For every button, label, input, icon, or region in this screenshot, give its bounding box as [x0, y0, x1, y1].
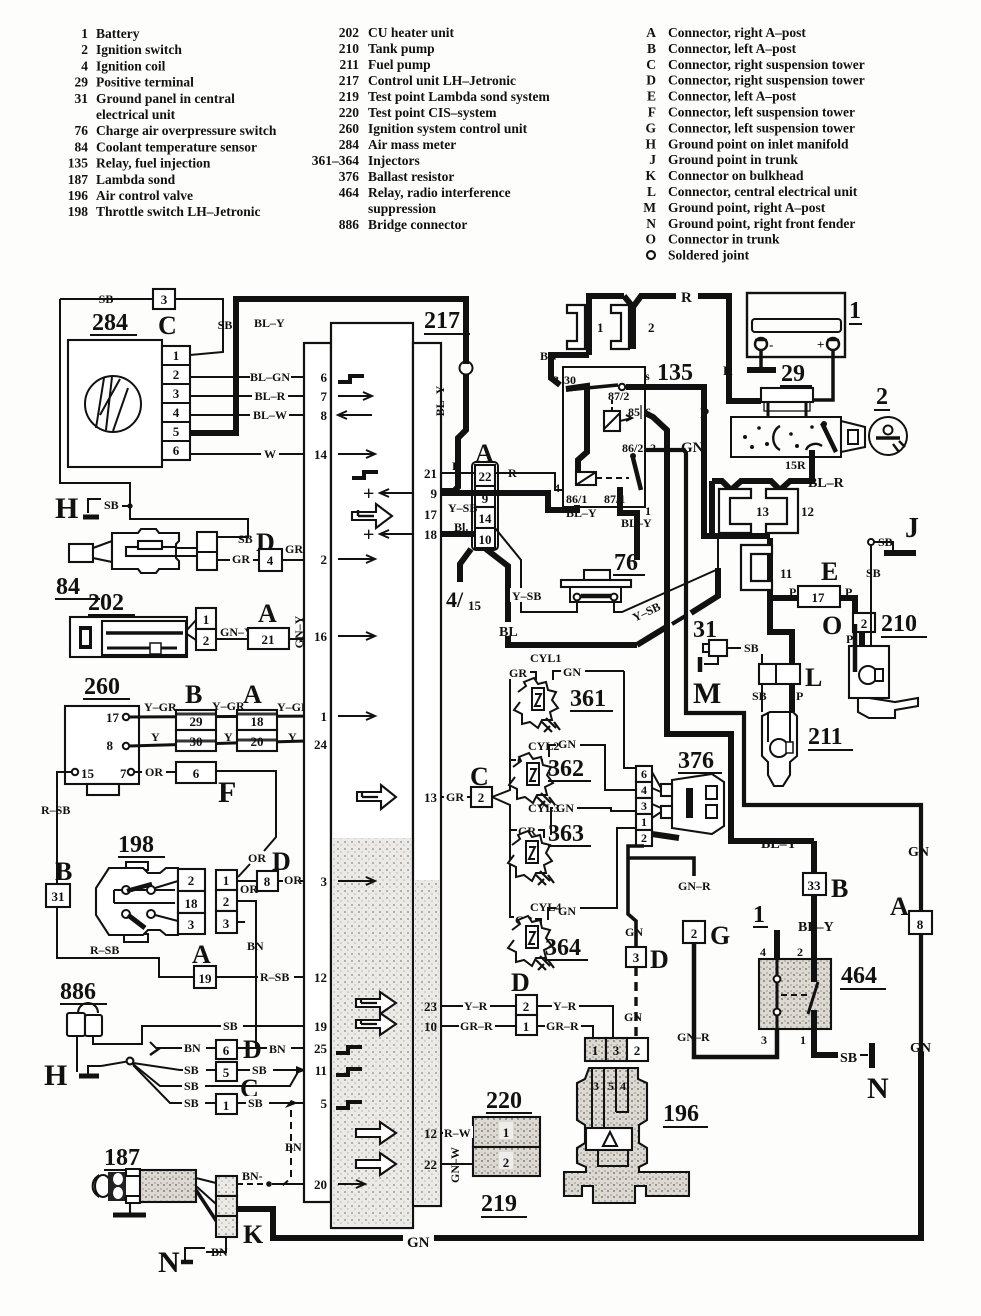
- svg-text:2: 2: [173, 367, 180, 382]
- svg-text:BL–Y: BL–Y: [566, 506, 597, 520]
- svg-text:GN: GN: [624, 1010, 642, 1024]
- svg-text:M: M: [643, 200, 656, 215]
- 376 strip to body links: [652, 772, 661, 818]
- 217 internal arrows: [338, 376, 364, 382]
- svg-text:Connector in trunk: Connector in trunk: [668, 232, 780, 247]
- svg-text:L: L: [805, 663, 822, 692]
- 198 pin boxes 2 18 3: [178, 869, 205, 891]
- heavy wire BL-Y from 87/1 down: [620, 503, 637, 560]
- connector D boxes 2 and 1: [516, 995, 537, 1015]
- svg-text:SB: SB: [840, 1051, 857, 1066]
- svg-text:18: 18: [251, 714, 265, 729]
- svg-text:363: 363: [548, 821, 584, 847]
- 202 connector boxes 1 2: [196, 608, 216, 629]
- svg-text:Positive terminal: Positive terminal: [96, 75, 194, 90]
- svg-text:2: 2: [321, 552, 328, 567]
- svg-text:Control unit LH–Jetronic: Control unit LH–Jetronic: [368, 73, 516, 88]
- svg-text:D: D: [650, 945, 669, 974]
- svg-text:22: 22: [424, 1157, 437, 1172]
- svg-text:GN–W: GN–W: [448, 1147, 462, 1183]
- svg-text:GN: GN: [910, 1041, 931, 1056]
- 198 upper contact: [122, 886, 130, 894]
- svg-text:J: J: [905, 513, 919, 544]
- svg-text:GN: GN: [625, 925, 643, 939]
- svg-text:R: R: [681, 290, 692, 306]
- connector C box 3 above 284: [153, 289, 175, 309]
- svg-text:electrical unit: electrical unit: [96, 107, 176, 122]
- svg-text:Connector, left A–post: Connector, left A–post: [668, 89, 797, 104]
- svg-text:135: 135: [68, 156, 89, 171]
- 284 air mass meter body: [68, 340, 162, 467]
- svg-text:84: 84: [56, 574, 80, 600]
- svg-text:1: 1: [523, 1019, 530, 1034]
- svg-text:SB: SB: [184, 1079, 199, 1093]
- legend column 1: [68, 26, 277, 219]
- svg-text:P: P: [700, 406, 709, 422]
- svg-text:12: 12: [314, 970, 327, 985]
- row 13 block arrow: [357, 785, 396, 809]
- svg-text:B: B: [55, 857, 72, 886]
- wire BN from clip1 bottom to relay: [551, 355, 589, 369]
- svg-text:284: 284: [92, 310, 128, 336]
- wire R pin21 through A22 to relay pin 4: [441, 473, 563, 490]
- svg-text:202: 202: [88, 590, 124, 616]
- svg-text:BL–Y: BL–Y: [254, 316, 285, 330]
- svg-text:N: N: [158, 1246, 180, 1279]
- svg-text:9: 9: [431, 486, 438, 501]
- svg-text:SB: SB: [878, 535, 893, 549]
- svg-text:+: +: [363, 483, 374, 505]
- svg-text:BL–GN: BL–GN: [250, 370, 290, 384]
- svg-text:A: A: [890, 892, 909, 921]
- heavy wire pin 9 to relay 86/1: [441, 493, 577, 510]
- svg-text:SB: SB: [752, 689, 767, 703]
- heavy wire BL branch down to y645: [486, 549, 637, 645]
- relay coil lower: [576, 472, 596, 485]
- svg-text:1: 1: [641, 815, 647, 829]
- svg-text:K: K: [645, 168, 656, 183]
- svg-text:2: 2: [876, 384, 888, 410]
- svg-text:O: O: [645, 232, 656, 247]
- svg-text:4: 4: [267, 553, 274, 568]
- svg-text:2: 2: [478, 790, 485, 805]
- svg-text:219: 219: [339, 89, 360, 104]
- svg-text:R: R: [508, 466, 517, 480]
- svg-text:BL–W: BL–W: [253, 408, 287, 422]
- svg-text:R–SB: R–SB: [41, 803, 70, 817]
- svg-text:Ballast resistor: Ballast resistor: [368, 169, 454, 184]
- svg-text:A: A: [258, 599, 277, 628]
- svg-text:21: 21: [262, 632, 275, 647]
- svg-text:3: 3: [641, 799, 647, 813]
- svg-text:1: 1: [173, 348, 180, 363]
- svg-text:R–W: R–W: [444, 1126, 471, 1140]
- svg-text:OR: OR: [145, 765, 163, 779]
- svg-text:GN–R: GN–R: [677, 1030, 710, 1044]
- wire R-SB from 260 pin15 down to B31: [57, 772, 72, 884]
- svg-text:Relay, fuel injection: Relay, fuel injection: [96, 156, 211, 171]
- svg-text:BL–Y: BL–Y: [798, 920, 834, 935]
- svg-text:SB: SB: [866, 566, 881, 580]
- control unit 217 outer left column: [304, 343, 331, 1202]
- wire W pin6 to 14: [190, 453, 304, 455]
- svg-text:14: 14: [314, 447, 328, 462]
- svg-text:364: 364: [545, 935, 581, 961]
- svg-text:+: +: [363, 524, 374, 546]
- svg-text:886: 886: [60, 979, 96, 1005]
- svg-text:F: F: [218, 776, 236, 809]
- svg-text:SB: SB: [104, 498, 119, 512]
- svg-text:Y: Y: [224, 730, 233, 744]
- svg-text:SB: SB: [744, 641, 759, 655]
- svg-text:2: 2: [641, 831, 647, 845]
- heavy wire down from clips to E: [709, 481, 715, 536]
- control unit 217 right column: [413, 343, 441, 1206]
- svg-text:86/2: 86/2: [622, 441, 643, 455]
- svg-text:2: 2: [861, 616, 868, 631]
- svg-text:4: 4: [173, 405, 180, 420]
- svg-text:Bridge connector: Bridge connector: [368, 217, 467, 232]
- svg-text:Y–SB: Y–SB: [448, 501, 477, 515]
- svg-text:361–364: 361–364: [312, 153, 360, 168]
- svg-text:P: P: [796, 689, 803, 703]
- svg-text:17: 17: [812, 590, 826, 605]
- svg-text:11: 11: [315, 1063, 327, 1078]
- svg-text:10: 10: [479, 532, 492, 547]
- svg-text:1: 1: [81, 26, 88, 41]
- svg-text:Y–R: Y–R: [553, 999, 577, 1013]
- svg-text:4: 4: [620, 1079, 626, 1093]
- svg-text:3: 3: [161, 292, 168, 307]
- svg-text:SB: SB: [218, 318, 233, 332]
- svg-text:Fuel pump: Fuel pump: [368, 57, 431, 72]
- svg-text:8: 8: [321, 408, 328, 423]
- svg-text:Y: Y: [151, 730, 160, 744]
- svg-text:31: 31: [52, 889, 65, 904]
- svg-text:Throttle switch LH–Jetronic: Throttle switch LH–Jetronic: [96, 204, 261, 219]
- svg-text:6: 6: [641, 767, 647, 781]
- svg-text:4: 4: [760, 945, 766, 959]
- wire GN from relay pin 2 down: [645, 450, 921, 911]
- battery ground: [759, 350, 763, 368]
- wires 187 to connector K: [196, 1178, 216, 1183]
- 187 ground: [129, 1203, 131, 1213]
- svg-text:3: 3: [761, 1033, 767, 1047]
- dashed BN wire up from K connector: [282, 1110, 291, 1186]
- svg-text:76: 76: [75, 123, 89, 138]
- svg-text:211: 211: [808, 724, 843, 750]
- svg-text:SB: SB: [99, 292, 114, 306]
- svg-text:BN: BN: [285, 1140, 302, 1154]
- svg-text:D: D: [243, 1035, 262, 1064]
- svg-text:1: 1: [753, 902, 765, 928]
- svg-text:GN: GN: [556, 801, 574, 815]
- wire P from relay top right: [645, 387, 770, 536]
- svg-text:14: 14: [479, 511, 493, 526]
- svg-text:Y: Y: [288, 730, 297, 744]
- svg-text:1: 1: [223, 1098, 230, 1113]
- svg-text:G: G: [645, 120, 656, 135]
- svg-text:suppression: suppression: [368, 201, 437, 216]
- svg-text:6: 6: [321, 370, 328, 385]
- svg-text:217: 217: [339, 73, 360, 88]
- svg-text:12: 12: [801, 504, 814, 519]
- svg-text:Test point Lambda sond system: Test point Lambda sond system: [368, 89, 551, 104]
- svg-text:Y–R: Y–R: [464, 999, 488, 1013]
- svg-text:1: 1: [203, 612, 210, 627]
- svg-text:W: W: [264, 447, 276, 461]
- svg-text:2: 2: [634, 1043, 641, 1058]
- svg-text:361: 361: [570, 686, 606, 712]
- svg-text:-: -: [769, 337, 773, 352]
- row 17 block arrow: [352, 504, 392, 528]
- svg-text:+: +: [817, 337, 824, 352]
- heavy diagonal up to P line: [637, 626, 668, 645]
- rows 12 22 block arrows: [356, 1122, 396, 1144]
- svg-text:5: 5: [173, 424, 180, 439]
- svg-text:BN: BN: [540, 349, 557, 363]
- svg-text:1: 1: [321, 709, 328, 724]
- thin wire Y-SB from A14 to 76: [495, 528, 577, 612]
- svg-text:Ground point, right A–post: Ground point, right A–post: [668, 200, 826, 215]
- svg-text:Charge air overpressure switch: Charge air overpressure switch: [96, 123, 277, 138]
- svg-text:R–SB: R–SB: [260, 970, 289, 984]
- svg-text:1: 1: [592, 1043, 599, 1058]
- svg-text:GN: GN: [681, 440, 704, 456]
- svg-text:4: 4: [641, 783, 647, 797]
- wire BN from K lower to N ground: [206, 1237, 226, 1252]
- wire OR through D box 8 to pin 3: [237, 880, 304, 882]
- svg-text:198: 198: [118, 832, 154, 858]
- svg-text:OR: OR: [248, 851, 266, 865]
- svg-text:GR: GR: [509, 666, 527, 680]
- wire Y-R pin23 to D2 to strip pin 3: [441, 1006, 613, 1038]
- wire SB from 284 shell to box 3 and down to pin 1: [60, 298, 153, 300]
- svg-text:Soldered joint: Soldered joint: [668, 248, 750, 263]
- svg-text:SB: SB: [248, 1096, 263, 1110]
- 198 lower contact: [122, 910, 130, 918]
- svg-text:16: 16: [314, 629, 328, 644]
- svg-text:3: 3: [173, 386, 180, 401]
- svg-text:M: M: [693, 677, 721, 710]
- svg-text:J: J: [649, 152, 656, 167]
- heavy wire BL-Y joint down to pin 9: [460, 362, 473, 375]
- connector K boxes: [216, 1176, 237, 1196]
- svg-text:Ground panel in central: Ground panel in central: [96, 91, 235, 106]
- 376 body: [672, 774, 724, 834]
- svg-text:211: 211: [339, 57, 359, 72]
- svg-text:13: 13: [756, 504, 770, 519]
- heavy wire pin 18 BL through A10 down: [441, 531, 475, 537]
- svg-text:4/: 4/: [446, 587, 464, 612]
- svg-text:CU heater unit: CU heater unit: [368, 25, 455, 40]
- svg-text:B: B: [185, 680, 202, 709]
- svg-text:1: 1: [223, 873, 230, 888]
- svg-text:Battery: Battery: [96, 26, 140, 41]
- svg-text:220: 220: [339, 105, 360, 120]
- wire GN from relay pin 6 down: [645, 413, 814, 841]
- svg-text:Connector, central electrical: Connector, central electrical unit: [668, 184, 858, 199]
- svg-text:K: K: [243, 1220, 264, 1249]
- svg-text:1: 1: [800, 1033, 806, 1047]
- svg-text:8: 8: [264, 874, 271, 889]
- svg-text:187: 187: [104, 1145, 140, 1171]
- svg-text:D: D: [511, 968, 530, 997]
- battery terminals: [755, 338, 767, 350]
- svg-text:BN: BN: [247, 939, 264, 953]
- svg-text:E: E: [821, 557, 838, 586]
- svg-text:Connector on bulkhead: Connector on bulkhead: [668, 168, 804, 183]
- svg-text:19: 19: [314, 1019, 328, 1034]
- svg-text:7: 7: [120, 766, 127, 781]
- svg-text:N: N: [867, 1072, 889, 1105]
- svg-text:18: 18: [424, 527, 438, 542]
- svg-text:464: 464: [841, 963, 877, 989]
- svg-text:5: 5: [608, 1079, 614, 1093]
- svg-text:187: 187: [68, 172, 89, 187]
- svg-text:A: A: [243, 680, 262, 709]
- bottom GN bus: [237, 1209, 403, 1238]
- svg-text:210: 210: [881, 611, 917, 637]
- svg-text:Ignition coil: Ignition coil: [96, 58, 166, 73]
- svg-text:Connector, right suspension to: Connector, right suspension tower: [668, 57, 865, 72]
- svg-text:BL: BL: [499, 625, 518, 640]
- row BN - D6 - BN to pin 25: [150, 1042, 168, 1048]
- svg-text:GN–R: GN–R: [678, 879, 711, 893]
- svg-text:2: 2: [503, 1155, 510, 1170]
- svg-text:1: 1: [849, 298, 861, 324]
- battery 1: [747, 293, 845, 357]
- svg-text:11: 11: [780, 566, 792, 581]
- svg-text:6: 6: [223, 1043, 230, 1058]
- svg-text:2: 2: [691, 926, 698, 941]
- svg-text:135: 135: [657, 360, 693, 386]
- svg-text:25: 25: [314, 1041, 328, 1056]
- svg-text:220: 220: [486, 1088, 522, 1114]
- svg-text:4: 4: [81, 58, 88, 73]
- svg-text:Connector, left suspension tow: Connector, left suspension tower: [668, 105, 855, 120]
- svg-text:362: 362: [548, 756, 584, 782]
- svg-text:Test point CIS–system: Test point CIS–system: [368, 105, 497, 120]
- svg-text:3: 3: [613, 1043, 620, 1058]
- svg-text:1: 1: [597, 320, 604, 335]
- svg-text:Tank pump: Tank pump: [368, 41, 435, 56]
- svg-text:BN: BN: [211, 1245, 228, 1259]
- svg-text:24: 24: [314, 737, 328, 752]
- svg-text:Connector, left A–post: Connector, left A–post: [668, 41, 797, 56]
- svg-text:B: B: [831, 874, 848, 903]
- svg-text:23: 23: [424, 999, 438, 1014]
- svg-text:GR–R: GR–R: [460, 1019, 493, 1033]
- 196 connector strip 1 3 2: [585, 1038, 606, 1061]
- svg-text:2: 2: [797, 945, 803, 959]
- svg-text:3: 3: [593, 1079, 599, 1093]
- connector clips 1 and 2 top: [567, 305, 585, 349]
- svg-text:1: 1: [503, 1125, 510, 1140]
- svg-text:R: R: [723, 363, 733, 378]
- control unit 217 inner column: [331, 323, 413, 1228]
- svg-text:6: 6: [173, 443, 180, 458]
- svg-text:BL–Y: BL–Y: [761, 837, 797, 852]
- svg-text:196: 196: [68, 188, 89, 203]
- svg-text:BL–Y: BL–Y: [621, 516, 652, 530]
- svg-text:15: 15: [468, 598, 482, 613]
- svg-text:SB: SB: [184, 1096, 199, 1110]
- heavy wire from strip pin 2 down: [652, 834, 679, 838]
- svg-text:GR: GR: [285, 542, 303, 556]
- thin SB wire down to tank pump: [870, 545, 872, 668]
- relay top switch: [566, 385, 618, 390]
- svg-text:5: 5: [321, 1096, 328, 1111]
- row 21 stair mark: [352, 472, 378, 478]
- wires R-W and GN-W: [441, 1132, 473, 1134]
- wire from 284 shell left down to H ground: [60, 299, 248, 537]
- svg-text:2: 2: [223, 894, 230, 909]
- svg-text:GN: GN: [558, 737, 576, 751]
- heavy wire R from clip1 top over to battery: [589, 296, 676, 355]
- svg-text:Ignition system control unit: Ignition system control unit: [368, 121, 528, 136]
- svg-text:17: 17: [424, 507, 438, 522]
- wire GR via connector D box 4 to pin 2: [217, 559, 304, 561]
- svg-text:BL–Y: BL–Y: [433, 385, 447, 416]
- svg-text:21: 21: [424, 466, 437, 481]
- svg-text:SB: SB: [223, 1019, 238, 1033]
- svg-text:464: 464: [339, 185, 360, 200]
- svg-text:BL–R: BL–R: [808, 476, 845, 491]
- svg-text:17: 17: [106, 710, 120, 725]
- svg-text:33: 33: [808, 878, 822, 893]
- svg-text:Injectors: Injectors: [368, 153, 420, 168]
- svg-text:H: H: [645, 136, 656, 151]
- wire R-SB from B31 down to A19 to pin 12: [57, 907, 195, 977]
- svg-text:B: B: [647, 41, 656, 56]
- relay lower switch: [633, 458, 641, 490]
- svg-text:1: 1: [645, 504, 651, 518]
- svg-text:Air control valve: Air control valve: [96, 188, 193, 203]
- svg-text:A: A: [475, 439, 494, 468]
- wire Y-GR pin17 through B29 A18 to pin 1: [129, 716, 331, 717]
- svg-text:376: 376: [339, 169, 360, 184]
- heavy wire 4/15 branch: [460, 549, 471, 582]
- wire BL-W pin4 to 8: [190, 414, 304, 416]
- rows 23 10 block arrows: [356, 992, 396, 1014]
- GR bus to all injectors: [492, 677, 530, 797]
- svg-text:OR: OR: [240, 882, 258, 896]
- svg-text:A: A: [192, 940, 211, 969]
- svg-text:202: 202: [339, 25, 360, 40]
- svg-text:22: 22: [479, 469, 492, 484]
- svg-text:L: L: [647, 184, 656, 199]
- svg-text:H: H: [44, 1059, 67, 1092]
- svg-text:P: P: [845, 585, 852, 599]
- svg-text:CYL1: CYL1: [530, 651, 561, 665]
- svg-text:3: 3: [321, 874, 328, 889]
- 84 connector box: [197, 532, 217, 570]
- svg-text:29: 29: [781, 361, 805, 387]
- svg-text:2: 2: [203, 633, 210, 648]
- svg-text:3: 3: [633, 950, 640, 965]
- svg-text:2: 2: [81, 42, 88, 57]
- svg-text:A: A: [646, 25, 656, 40]
- wire GR-R pin10 to D1 to strip pin 1: [441, 1026, 593, 1038]
- svg-text:15: 15: [81, 766, 95, 781]
- GN bus vertical: [624, 671, 636, 768]
- wire BL-R pin3 to 7: [190, 395, 304, 397]
- svg-text:20: 20: [314, 1177, 327, 1192]
- svg-text:219: 219: [481, 1191, 517, 1217]
- svg-text:Y–SB: Y–SB: [512, 589, 541, 603]
- svg-text:GN: GN: [558, 904, 576, 918]
